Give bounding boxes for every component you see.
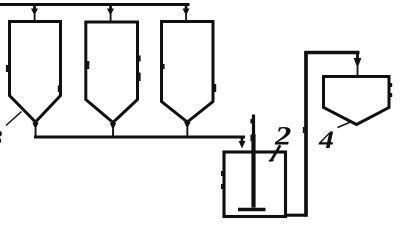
svg-text:4: 4 (318, 125, 334, 153)
svg-text:2: 2 (274, 123, 292, 151)
svg-text:3: 3 (0, 126, 3, 151)
